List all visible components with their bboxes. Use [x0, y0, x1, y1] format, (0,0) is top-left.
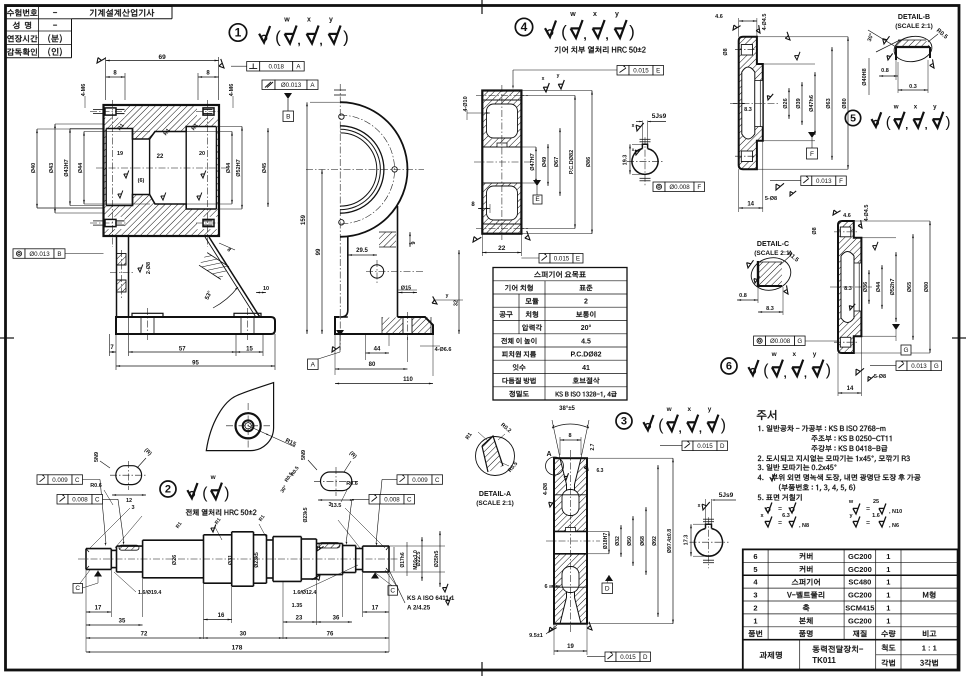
svg-text:(: ( — [561, 22, 567, 41]
svg-text:Ø22.5: Ø22.5 — [416, 552, 422, 567]
svg-text:41: 41 — [582, 365, 590, 372]
svg-text:SCM415: SCM415 — [845, 604, 874, 613]
svg-text:R0.6: R0.6 — [346, 481, 358, 487]
svg-text:19: 19 — [567, 644, 574, 650]
svg-text:=: = — [778, 506, 782, 513]
svg-text:TK011: TK011 — [812, 656, 836, 665]
svg-text:w: w — [666, 406, 673, 413]
svg-text:Ø43H7: Ø43H7 — [64, 159, 70, 176]
svg-text:9: 9 — [411, 241, 417, 244]
svg-text:80: 80 — [369, 362, 376, 368]
svg-text:Ø43: Ø43 — [49, 163, 55, 173]
svg-text:B: B — [286, 114, 290, 121]
svg-text:13.5: 13.5 — [331, 503, 342, 509]
svg-text:0.008: 0.008 — [72, 497, 88, 504]
svg-text:4-Ø4.5: 4-Ø4.5 — [864, 205, 870, 222]
svg-text:5N9: 5N9 — [301, 450, 307, 460]
svg-text:4-Ø6.6: 4-Ø6.6 — [435, 347, 452, 353]
svg-text:x: x — [632, 123, 635, 129]
svg-text:A 2/4.25: A 2/4.25 — [407, 605, 431, 612]
svg-text:3: 3 — [753, 591, 757, 600]
svg-text:2: 2 — [753, 604, 757, 613]
svg-text:0.008: 0.008 — [384, 497, 400, 504]
svg-text:C: C — [95, 497, 100, 504]
svg-text:25: 25 — [873, 499, 879, 505]
svg-text:B: B — [57, 251, 61, 258]
svg-text:Ø63: Ø63 — [826, 98, 832, 108]
svg-text:17: 17 — [95, 606, 102, 612]
svg-text:10: 10 — [263, 286, 269, 292]
svg-text:Ø80: Ø80 — [842, 98, 848, 108]
svg-text:(: ( — [763, 362, 769, 379]
svg-text:76: 76 — [327, 632, 334, 638]
svg-text:Ø8: Ø8 — [812, 227, 818, 234]
svg-text:,: , — [925, 120, 928, 132]
svg-text:29.5: 29.5 — [356, 248, 368, 254]
svg-text:Ø44: Ø44 — [876, 281, 882, 292]
svg-text:8: 8 — [568, 433, 571, 439]
svg-text:): ) — [946, 114, 951, 131]
svg-text:3: 3 — [621, 416, 627, 428]
svg-text:4-M6: 4-M6 — [81, 84, 87, 97]
svg-text:Ø47h6: Ø47h6 — [809, 95, 815, 112]
svg-text:Ø80: Ø80 — [924, 282, 930, 292]
svg-text:Ø92: Ø92 — [652, 536, 658, 546]
svg-text:3: 3 — [328, 502, 331, 508]
svg-text:2.7: 2.7 — [590, 443, 596, 450]
svg-text:6.3: 6.3 — [597, 468, 604, 474]
svg-text:,: , — [784, 368, 787, 380]
svg-text:36: 36 — [333, 616, 340, 622]
svg-text:6: 6 — [544, 584, 547, 590]
svg-text:2-Ø8: 2-Ø8 — [146, 262, 152, 274]
svg-text:69: 69 — [158, 54, 166, 61]
svg-text:32: 32 — [454, 300, 460, 306]
svg-text:Ø0.013: Ø0.013 — [29, 251, 50, 258]
svg-text:6: 6 — [726, 361, 732, 373]
svg-text:4-Ø10: 4-Ø10 — [463, 96, 469, 111]
svg-text:C: C — [390, 587, 395, 594]
svg-text:22: 22 — [157, 154, 164, 160]
svg-text:DETAIL-C: DETAIL-C — [757, 241, 789, 248]
svg-text:19.3: 19.3 — [623, 155, 629, 166]
svg-text:C: C — [75, 585, 80, 592]
svg-text:4.5: 4.5 — [581, 338, 591, 345]
svg-text:4: 4 — [521, 20, 528, 34]
svg-text:0.015: 0.015 — [697, 443, 713, 450]
svg-text:0.013: 0.013 — [911, 363, 927, 370]
svg-text:P.C.DØ82: P.C.DØ82 — [571, 352, 602, 359]
svg-text:3: 3 — [131, 505, 134, 511]
svg-text:4.6: 4.6 — [715, 14, 723, 20]
svg-text:Ø0.008: Ø0.008 — [669, 184, 690, 191]
svg-text:1.6/Ø12.4: 1.6/Ø12.4 — [293, 590, 316, 596]
svg-text:16: 16 — [218, 613, 225, 619]
svg-text:35: 35 — [119, 619, 126, 625]
svg-text:Ø31: Ø31 — [228, 555, 234, 565]
svg-text:P.C.DØ82: P.C.DØ82 — [569, 150, 575, 174]
svg-text:9.5±1: 9.5±1 — [529, 633, 543, 639]
svg-text:4-Ø8: 4-Ø8 — [543, 483, 549, 495]
svg-text:(: ( — [886, 114, 891, 131]
svg-text:E: E — [656, 68, 660, 75]
svg-text:,: , — [699, 423, 702, 435]
svg-text:4-Ø4.5: 4-Ø4.5 — [762, 14, 768, 31]
svg-text:12: 12 — [126, 498, 132, 504]
svg-text:D: D — [605, 586, 610, 593]
svg-text:0.8: 0.8 — [739, 293, 747, 299]
svg-text:8.3: 8.3 — [844, 286, 852, 292]
svg-text:F: F — [810, 151, 814, 158]
svg-text:Ø8: Ø8 — [723, 48, 729, 55]
svg-text:G: G — [903, 347, 908, 354]
svg-text:C: C — [407, 497, 412, 504]
svg-text:5N9: 5N9 — [94, 452, 100, 462]
svg-text:GC200: GC200 — [848, 591, 872, 600]
svg-text:,: , — [297, 34, 300, 48]
svg-text:GC200: GC200 — [848, 565, 872, 574]
svg-text:Ø65: Ø65 — [907, 282, 913, 292]
svg-text:x: x — [542, 76, 545, 82]
svg-text:DETAIL-A: DETAIL-A — [479, 491, 511, 498]
svg-text:, N10: , N10 — [889, 509, 902, 515]
svg-text:w: w — [569, 11, 576, 18]
svg-text:D: D — [720, 443, 725, 450]
svg-text:(6): (6) — [138, 178, 145, 184]
svg-text:=: = — [866, 520, 870, 527]
svg-text:,: , — [905, 120, 908, 132]
svg-text:178: 178 — [232, 645, 243, 652]
svg-text:Ø44: Ø44 — [226, 162, 232, 173]
svg-text:5Js9: 5Js9 — [719, 492, 734, 499]
svg-text:5: 5 — [850, 113, 856, 125]
svg-text:0.8: 0.8 — [881, 68, 889, 74]
svg-text:Ø40: Ø40 — [31, 163, 37, 173]
svg-text:): ) — [343, 28, 349, 47]
svg-text:(SCALE 2:1): (SCALE 2:1) — [754, 250, 792, 257]
svg-text:G: G — [934, 363, 939, 370]
svg-text:Ø17h6: Ø17h6 — [400, 552, 406, 568]
svg-text:4-M6: 4-M6 — [229, 84, 235, 97]
svg-text:0.013: 0.013 — [816, 178, 832, 185]
svg-text:DETAIL-B: DETAIL-B — [898, 14, 930, 21]
svg-text:y: y — [813, 351, 817, 358]
svg-text:5: 5 — [753, 565, 757, 574]
svg-text:): ) — [629, 22, 635, 41]
svg-text:Ø23k5: Ø23k5 — [254, 552, 260, 568]
svg-text:w: w — [283, 17, 290, 24]
svg-text:,: , — [804, 368, 807, 380]
svg-text:SC480: SC480 — [848, 578, 871, 587]
svg-text:20: 20 — [199, 151, 205, 157]
svg-text:2: 2 — [165, 484, 171, 496]
svg-text:Ø18H7: Ø18H7 — [603, 533, 609, 550]
svg-text:A: A — [546, 451, 551, 458]
svg-text:30: 30 — [240, 632, 247, 638]
svg-text:Ø39: Ø39 — [796, 98, 802, 108]
svg-text:1: 1 — [235, 26, 242, 40]
svg-text:E: E — [576, 256, 580, 263]
svg-text:, N8: , N8 — [799, 523, 809, 529]
svg-text:x: x — [914, 103, 918, 110]
svg-text:0.015: 0.015 — [554, 256, 570, 263]
svg-text:8.3: 8.3 — [766, 306, 774, 312]
svg-text:(: ( — [202, 485, 208, 502]
svg-text:(SCALE 2:1): (SCALE 2:1) — [476, 500, 514, 507]
svg-text:6: 6 — [753, 552, 757, 561]
svg-text:23: 23 — [296, 616, 303, 622]
svg-text:x: x — [688, 406, 692, 413]
svg-text:GC200: GC200 — [848, 552, 872, 561]
svg-text:C: C — [75, 477, 80, 484]
svg-text:95: 95 — [192, 360, 199, 366]
svg-text:=: = — [866, 506, 870, 513]
svg-text:38°±5: 38°±5 — [559, 406, 575, 412]
svg-text:Ø40H8: Ø40H8 — [862, 68, 868, 85]
svg-text:,: , — [605, 28, 608, 42]
svg-text:Ø32: Ø32 — [615, 536, 621, 546]
svg-text:Ø52h7: Ø52h7 — [890, 279, 896, 296]
svg-text:w: w — [771, 351, 778, 358]
svg-text:): ) — [721, 417, 726, 434]
svg-text:C: C — [435, 477, 440, 484]
svg-text:Ø86: Ø86 — [586, 157, 592, 167]
svg-text:0.018: 0.018 — [268, 64, 284, 71]
svg-text:1: 1 — [886, 565, 890, 574]
svg-text:1.6/Ø19.4: 1.6/Ø19.4 — [138, 590, 161, 596]
svg-text:x: x — [698, 503, 701, 509]
svg-text:E: E — [535, 196, 540, 203]
svg-text:2: 2 — [584, 299, 588, 306]
svg-text:Ø26: Ø26 — [783, 98, 789, 108]
svg-text:w: w — [210, 474, 217, 481]
svg-text:Ø0.013: Ø0.013 — [281, 82, 302, 89]
svg-text:19: 19 — [117, 151, 123, 157]
svg-text:w: w — [848, 499, 854, 505]
svg-text:44: 44 — [374, 347, 381, 353]
svg-text:y: y — [615, 11, 619, 18]
svg-text:R0.6: R0.6 — [90, 483, 102, 489]
svg-text:1.35: 1.35 — [292, 603, 303, 609]
svg-text:20°: 20° — [581, 324, 592, 332]
svg-text:G: G — [797, 338, 802, 345]
svg-text:,: , — [679, 423, 682, 435]
svg-text:1: 1 — [753, 616, 757, 625]
svg-text:1.6: 1.6 — [872, 513, 880, 519]
svg-text:14: 14 — [747, 202, 754, 208]
svg-text:D: D — [643, 654, 648, 661]
svg-text:0.015: 0.015 — [633, 68, 649, 75]
svg-text:0.009: 0.009 — [412, 477, 428, 484]
svg-text:1: 1 — [886, 604, 890, 613]
svg-text:x: x — [793, 351, 797, 358]
svg-text:Ø44: Ø44 — [78, 162, 84, 173]
svg-text:): ) — [224, 485, 229, 502]
svg-text:Ø52H7: Ø52H7 — [236, 159, 242, 176]
svg-text:1: 1 — [886, 591, 890, 600]
svg-text:22: 22 — [498, 245, 506, 252]
svg-text:y: y — [329, 17, 333, 24]
svg-text:GC200: GC200 — [848, 616, 872, 625]
svg-text:,: , — [319, 34, 322, 48]
svg-text:x: x — [307, 17, 311, 24]
svg-text:Ø25h5: Ø25h5 — [434, 551, 440, 568]
svg-text:(SCALE 2:1): (SCALE 2:1) — [895, 23, 933, 30]
svg-text:1: 1 — [886, 552, 890, 561]
svg-text:Ø67: Ø67 — [554, 157, 560, 167]
svg-text:y: y — [446, 293, 449, 299]
svg-text:1: 1 — [886, 578, 890, 587]
svg-text:F: F — [697, 184, 701, 191]
svg-text:0.3: 0.3 — [909, 84, 917, 90]
svg-text:Ø47H7: Ø47H7 — [530, 153, 536, 170]
svg-text:Ø26: Ø26 — [172, 555, 178, 565]
svg-text:A: A — [311, 362, 316, 369]
svg-text:Ø45: Ø45 — [262, 163, 268, 173]
svg-text:(: ( — [658, 417, 664, 434]
svg-text:Ø23k5: Ø23k5 — [303, 507, 309, 522]
svg-text:17: 17 — [372, 606, 379, 612]
svg-text:Ø36: Ø36 — [863, 282, 869, 292]
svg-text:99: 99 — [316, 248, 322, 255]
svg-text:y: y — [933, 103, 937, 110]
svg-text:, N6: , N6 — [889, 523, 899, 529]
svg-text:y: y — [557, 73, 560, 79]
svg-text:Ø15: Ø15 — [401, 286, 411, 292]
svg-text:(: ( — [275, 28, 281, 47]
svg-text:F: F — [839, 178, 843, 185]
svg-text:4.6: 4.6 — [843, 213, 851, 219]
svg-text:Ø97.4±0.8: Ø97.4±0.8 — [667, 529, 673, 553]
svg-text:72: 72 — [141, 632, 148, 638]
svg-text:15: 15 — [246, 346, 253, 352]
svg-text:5Js9: 5Js9 — [652, 113, 667, 120]
svg-text:57: 57 — [179, 346, 186, 352]
svg-text:17.3: 17.3 — [684, 535, 690, 546]
svg-text:w: w — [893, 103, 899, 110]
svg-text:Ø49: Ø49 — [542, 157, 548, 167]
svg-text:6.3: 6.3 — [782, 513, 790, 519]
svg-text:5-Ø8: 5-Ø8 — [874, 374, 886, 380]
svg-text:8.3: 8.3 — [744, 107, 752, 113]
svg-text:,: , — [583, 28, 586, 42]
svg-text:y: y — [708, 406, 712, 413]
svg-text:Ø0.008: Ø0.008 — [770, 338, 791, 345]
svg-text:1 : 1: 1 : 1 — [922, 644, 937, 653]
svg-text:x: x — [593, 11, 597, 18]
svg-text:159: 159 — [301, 214, 307, 225]
svg-text:=: = — [778, 520, 782, 527]
svg-text:): ) — [826, 362, 831, 379]
svg-text:Ø50: Ø50 — [627, 536, 633, 546]
svg-text:1: 1 — [886, 616, 890, 625]
svg-text:14: 14 — [847, 386, 854, 392]
svg-text:0.009: 0.009 — [52, 477, 68, 484]
svg-text:5-Ø8: 5-Ø8 — [765, 196, 777, 202]
svg-text:110: 110 — [403, 377, 413, 383]
svg-text:Ø68: Ø68 — [640, 536, 646, 546]
svg-text:0.015: 0.015 — [620, 654, 636, 661]
